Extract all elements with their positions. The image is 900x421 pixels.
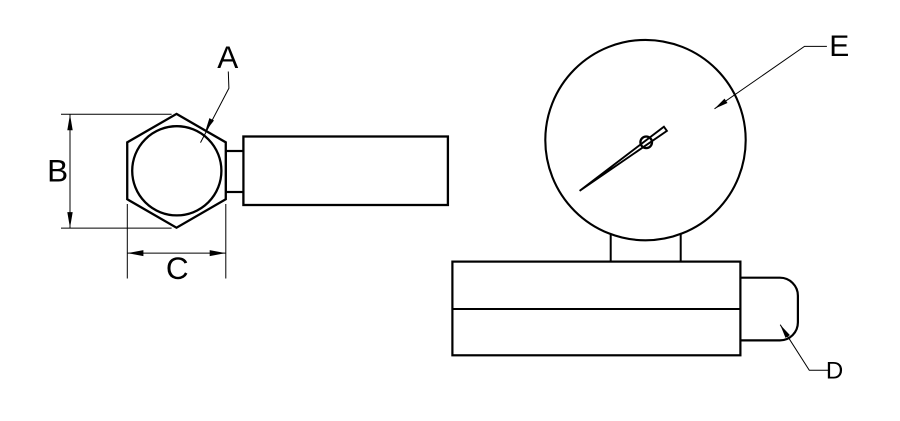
- needle hub: [640, 137, 652, 149]
- neck left line: [610, 234, 612, 262]
- leader D line: [780, 325, 829, 371]
- svg-text:A: A: [217, 39, 238, 75]
- dimension B extension line top: [61, 113, 172, 115]
- gauge dial circle: [545, 40, 745, 240]
- neck right line: [680, 234, 682, 262]
- needle: [580, 127, 667, 191]
- leader A arrowhead: [205, 118, 214, 132]
- dimension B arrow up: [67, 114, 72, 130]
- bore circle: [132, 126, 221, 215]
- gauge base divider: [452, 308, 740, 310]
- gauge base body: [452, 262, 740, 356]
- dimension C extension line left: [126, 204, 128, 279]
- dimension B arrow down: [67, 212, 72, 228]
- leader E line: [715, 46, 827, 108]
- dimension C line: [127, 252, 226, 254]
- leader D arrowhead: [780, 325, 790, 338]
- svg-text:D: D: [826, 358, 843, 385]
- svg-text:B: B: [47, 153, 68, 189]
- dimension C arrow left: [128, 250, 144, 256]
- svg-text:E: E: [829, 30, 849, 63]
- leader E arrowhead: [715, 99, 728, 109]
- svg-text:C: C: [166, 250, 189, 286]
- hex nut: [127, 114, 226, 228]
- dimension C extension line right: [225, 204, 227, 279]
- connector rectangle: [226, 151, 244, 192]
- dimension B line: [69, 114, 71, 228]
- valve knob: [740, 278, 798, 341]
- dimension C arrow right: [210, 250, 226, 256]
- gauge thread body rectangle: [243, 137, 448, 206]
- leader A line: [201, 72, 229, 143]
- dimension B extension line bottom: [61, 227, 172, 229]
